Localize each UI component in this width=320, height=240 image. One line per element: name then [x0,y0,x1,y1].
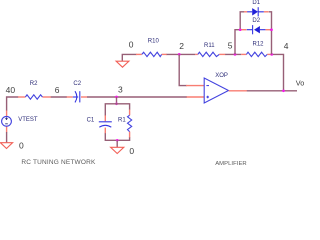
svg-text:R1: R1 [118,118,126,124]
svg-text:R12: R12 [253,41,265,47]
svg-text:C1: C1 [87,118,95,124]
junction D2 anode row left [239,28,242,31]
svg-text:AMPLIFIER: AMPLIFIER [215,161,247,166]
resistor R1 [118,110,132,138]
wire: stub to RC ground [116,140,118,147]
source VTEST [2,111,38,133]
wire: node 3 stub down to RC box [116,97,118,104]
pin: op-amp inverting input [186,85,204,87]
junction node 5 [234,53,237,56]
svg-text:R11: R11 [204,43,215,49]
svg-text:D2: D2 [252,18,260,24]
svg-text:40: 40 [6,85,16,95]
svg-text:D1: D1 [252,0,260,6]
junction output node 4 [282,89,285,92]
resistor R10 [136,39,167,57]
svg-text:RC TUNING NETWORK: RC TUNING NETWORK [21,159,96,166]
wire: R2 to C2 [51,96,67,98]
svg-text:C2: C2 [73,81,81,87]
svg-text:2: 2 [179,41,184,51]
svg-text:Vo: Vo [296,78,304,87]
wire: D1 left elbow down to D2 row [240,12,244,30]
svg-text:R2: R2 [30,81,38,87]
ground (VTEST) [0,143,12,149]
resistor R12 [241,41,271,56]
ground (top rail) [116,61,129,67]
wire: output to Vo [247,90,297,92]
svg-text:5: 5 [228,40,233,50]
svg-text:VTEST: VTEST [18,117,38,123]
wire: RC box bottom [105,133,129,141]
wire rail: ground elbow to R10 [122,54,136,61]
wire: node 40 elbow to R2 [7,97,19,111]
op-amp XOP [204,73,228,103]
ground (RC network) [111,147,124,153]
svg-text:0: 0 [129,39,134,49]
junction node 3 [115,96,118,99]
diode D2 [241,18,270,34]
svg-text:R10: R10 [148,39,160,45]
wire: D2 right stub [270,29,272,31]
svg-text:0: 0 [129,146,134,156]
wire: VTEST to ground [6,132,8,142]
pin: op-amp non-inverting input [186,96,204,98]
resistor R2 [18,81,51,99]
wire rail: R12 through node 4 then down to output net [271,54,284,90]
capacitor C1 [87,115,112,133]
wire: RC box top and left branch [105,104,129,116]
wire rail: R11 to R12 (through node 5) [225,53,241,55]
junction RC box top [115,102,118,105]
wire rail: R10 to R11 (through node 2) [166,53,195,55]
capacitor C2 [67,81,88,103]
junction node 4 [270,53,273,56]
svg-text:0: 0 [19,141,24,151]
diode D1 [244,0,268,16]
wire: D1 right elbow down through D2 row to node 5-4 rail [269,12,272,55]
resistor R11 [195,43,225,57]
wire: node 2 down and over to inverting input [179,54,186,85]
svg-text:XOP: XOP [215,73,228,79]
pin: op-amp output [229,90,247,92]
svg-text:4: 4 [284,41,289,51]
svg-text:6: 6 [55,85,60,95]
junction RC box bottom [116,139,119,142]
junction node 2 [178,53,181,56]
wire: C2 through node 3 to non-inverting input [87,96,187,98]
junction D2 cathode row right [270,28,273,31]
wire: D2 row left elbow down to rail node 5 [235,30,241,55]
svg-text:3: 3 [118,85,123,95]
